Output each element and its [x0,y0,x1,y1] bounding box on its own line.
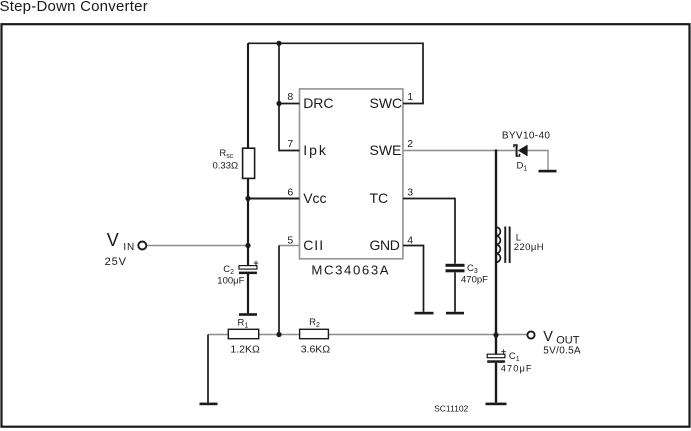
svg-text:220μH: 220μH [514,242,544,253]
svg-text:5: 5 [287,234,293,246]
svg-text:R1: R1 [238,318,249,330]
svg-text:Vcc: Vcc [303,190,326,206]
svg-text:470pF: 470pF [461,275,488,286]
svg-text:8: 8 [287,91,293,103]
svg-text:5V/0.5A: 5V/0.5A [543,345,581,356]
svg-text:1: 1 [407,91,413,103]
svg-text:100μF: 100μF [217,276,244,287]
svg-text:MC34063A: MC34063A [311,263,390,278]
svg-text:2: 2 [407,138,413,150]
svg-text:Step-Down Converter: Step-Down Converter [0,0,148,15]
svg-text:V: V [107,230,119,250]
svg-text:GND: GND [370,237,400,253]
svg-text:DRC: DRC [303,95,333,111]
svg-text:Ipk: Ipk [303,142,328,158]
svg-text:3.6KΩ: 3.6KΩ [301,344,331,356]
svg-text:TC: TC [370,190,389,206]
svg-text:25V: 25V [105,256,127,268]
svg-text:IN: IN [123,242,135,253]
svg-text:3: 3 [407,187,413,199]
svg-text:6: 6 [287,187,293,199]
svg-text:7: 7 [287,138,293,150]
svg-text:Rsc: Rsc [219,148,233,160]
svg-text:1.2KΩ: 1.2KΩ [230,344,260,356]
svg-text:V: V [543,329,553,345]
svg-text:C3: C3 [467,263,478,275]
svg-text:R2: R2 [309,317,320,329]
svg-text:470μF: 470μF [501,364,533,374]
svg-text:0.33Ω: 0.33Ω [213,161,239,172]
svg-text:BYV10-40: BYV10-40 [502,131,550,142]
svg-text:SWC: SWC [370,95,403,111]
svg-text:D1: D1 [517,161,528,173]
svg-text:C1: C1 [509,351,520,363]
svg-text:SC11102: SC11102 [434,404,468,414]
svg-text:SWE: SWE [370,142,402,158]
svg-text:4: 4 [407,234,413,246]
svg-text:CII: CII [303,237,324,253]
svg-text:C2: C2 [223,264,234,276]
